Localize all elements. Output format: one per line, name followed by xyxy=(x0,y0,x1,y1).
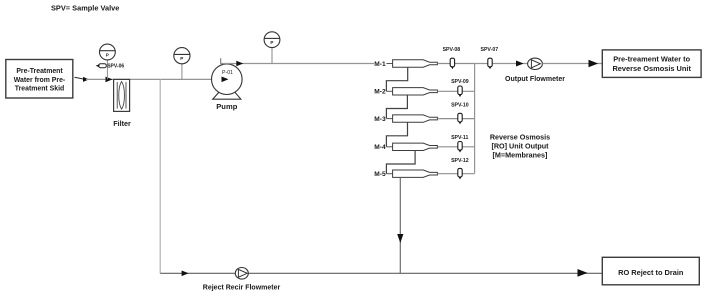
filter xyxy=(113,79,131,128)
wire: concentrate M-4 to M-5 xyxy=(386,151,415,174)
gauge PI-1 xyxy=(100,44,116,63)
svg-text:P: P xyxy=(106,53,109,58)
svg-text:Treatment Skid: Treatment Skid xyxy=(15,85,64,92)
box: RO Reject to Drain xyxy=(602,257,699,285)
svg-text:P: P xyxy=(180,56,183,61)
membrane M-5 xyxy=(374,170,437,178)
svg-text:M-5: M-5 xyxy=(374,171,386,178)
wire: concentrate M-2 to M-3 xyxy=(386,95,407,119)
membrane M-2 xyxy=(374,88,437,96)
svg-text:SPV-09: SPV-09 xyxy=(451,79,469,85)
gauge PI-3 xyxy=(264,32,280,64)
wire: concentrate M-1 to M-2 xyxy=(386,67,407,91)
svg-text:P-01: P-01 xyxy=(222,70,233,76)
svg-text:SPV-12: SPV-12 xyxy=(451,158,469,164)
wire: permeate M-1 to header xyxy=(437,63,474,65)
wire: permeate M-4 to header xyxy=(437,146,474,148)
svg-text:SPV-10: SPV-10 xyxy=(451,102,469,108)
svg-text:SPV= Sample Valve: SPV= Sample Valve xyxy=(51,4,119,13)
valve SPV-09 xyxy=(451,79,469,97)
svg-text:Pre-Treatment: Pre-Treatment xyxy=(16,68,63,75)
svg-text:Reject Recir Flowmeter: Reject Recir Flowmeter xyxy=(203,285,281,292)
svg-text:Filter: Filter xyxy=(113,119,131,128)
wire: permeate M-5 to header xyxy=(437,173,474,175)
wire: main feed line to pump xyxy=(86,78,227,80)
node: recirculation tee xyxy=(159,79,161,273)
flowmeter FM-1 xyxy=(505,58,565,83)
svg-text:RO Reject to Drain: RO Reject to Drain xyxy=(618,268,684,277)
svg-text:M-2: M-2 xyxy=(374,89,386,96)
wire: pump discharge riser xyxy=(220,58,222,64)
svg-text:[RO] Unit Output: [RO] Unit Output xyxy=(491,142,549,151)
wire: arrowhead after pump xyxy=(236,61,243,67)
svg-text:Output Flowmeter: Output Flowmeter xyxy=(505,76,565,83)
label: RO unit output note xyxy=(490,133,550,160)
gauge PI-2 xyxy=(174,48,190,80)
svg-text:Reverse Osmosis Unit: Reverse Osmosis Unit xyxy=(612,64,691,73)
pump P-01 xyxy=(212,64,243,111)
valve SPV-08 xyxy=(443,47,461,69)
box: Pre-Treatment Water from Pre-Treatment Skid xyxy=(6,60,73,99)
membrane M-1 xyxy=(374,60,437,68)
valve SPV-06 xyxy=(96,63,125,79)
svg-text:Water from Pre-: Water from Pre- xyxy=(14,77,66,84)
wire: reject drop from M-5 xyxy=(399,177,401,273)
svg-text:Pump: Pump xyxy=(216,102,237,111)
svg-text:SPV-07: SPV-07 xyxy=(481,47,499,53)
flowmeter FM-2 xyxy=(203,268,281,292)
svg-text:[M=Membranes]: [M=Membranes] xyxy=(493,151,548,160)
wire: discharge line to M-1 xyxy=(221,63,374,65)
svg-text:M-4: M-4 xyxy=(374,144,386,151)
wire: permeate M-2 to header xyxy=(437,90,474,92)
svg-text:SPV-08: SPV-08 xyxy=(443,47,461,53)
wire: bottom reject line xyxy=(160,272,602,274)
svg-text:SPV-11: SPV-11 xyxy=(451,135,468,141)
valve SPV-11 xyxy=(451,135,468,153)
valve SPV-10 xyxy=(451,102,469,124)
wire: arrowhead before filter xyxy=(106,77,113,83)
valve SPV-07 xyxy=(481,47,499,69)
svg-text:M-3: M-3 xyxy=(374,116,386,123)
wire: to output box xyxy=(542,63,602,65)
wire: permeate M-3 to header xyxy=(437,118,474,120)
header: permeate collection xyxy=(474,64,476,174)
svg-text:P: P xyxy=(270,40,273,45)
wire: concentrate M-3 to M-4 xyxy=(386,122,407,147)
membrane M-4 xyxy=(374,143,437,151)
svg-text:Pre-treament Water to: Pre-treament Water to xyxy=(613,55,690,64)
box: Pre-treament Water to Reverse Osmosis Unit xyxy=(602,50,701,78)
wire: output line xyxy=(475,63,528,65)
membrane M-3 xyxy=(374,115,437,123)
svg-text:Reverse Osmosis: Reverse Osmosis xyxy=(490,133,550,142)
wire: feed arrow from box xyxy=(75,77,90,82)
svg-text:M-1: M-1 xyxy=(374,61,386,68)
valve SPV-12 xyxy=(451,158,469,179)
svg-text:SPV-06: SPV-06 xyxy=(107,63,124,69)
